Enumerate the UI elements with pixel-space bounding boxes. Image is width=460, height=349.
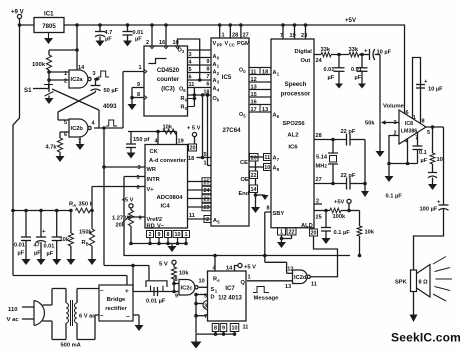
svg-text:11: 11 (264, 155, 270, 161)
svg-text:10: 10 (175, 232, 181, 238)
svg-text:9: 9 (158, 232, 161, 238)
svg-text:µF: µF (421, 158, 428, 164)
svg-text:20: 20 (311, 231, 317, 237)
svg-text:9: 9 (137, 82, 140, 88)
svg-text:23: 23 (204, 205, 210, 211)
svg-text:8: 8 (175, 277, 178, 283)
svg-text:µF: µF (47, 251, 54, 257)
svg-text:13: 13 (285, 284, 291, 290)
svg-text:24: 24 (316, 58, 323, 64)
svg-text:+5 V: +5 V (122, 198, 134, 204)
svg-text:µF: µF (135, 37, 142, 43)
svg-text:33k: 33k (349, 47, 359, 53)
svg-text:+: + (364, 49, 368, 55)
svg-text:22: 22 (289, 230, 295, 236)
svg-text:V+: V+ (147, 187, 155, 193)
svg-text:4093: 4093 (103, 103, 117, 110)
svg-text:28: 28 (316, 133, 322, 139)
svg-text:10: 10 (199, 279, 205, 285)
svg-text:IC4: IC4 (161, 204, 171, 210)
svg-text:S1: S1 (24, 87, 32, 94)
svg-text:−: − (126, 314, 130, 321)
svg-text:IC2d: IC2d (294, 275, 307, 281)
svg-text:8: 8 (267, 206, 270, 212)
svg-text:6 V ac: 6 V ac (79, 314, 95, 320)
svg-text:25: 25 (316, 215, 322, 221)
svg-text:0.01 µF: 0.01 µF (146, 299, 166, 305)
svg-text:25: 25 (204, 180, 210, 186)
svg-text:IC8: IC8 (405, 121, 413, 127)
svg-text:1: 1 (139, 65, 142, 71)
svg-text:5.14: 5.14 (316, 155, 328, 161)
svg-text:100 µF: 100 µF (420, 207, 438, 213)
svg-text:22 pF: 22 pF (341, 173, 356, 179)
svg-text:3: 3 (189, 52, 192, 58)
svg-text:8: 8 (137, 92, 140, 98)
svg-text:8: 8 (167, 232, 170, 238)
svg-text:11: 11 (189, 213, 195, 219)
svg-text:+: + (125, 288, 129, 295)
svg-text:12: 12 (251, 77, 257, 83)
svg-text:1: 1 (248, 275, 251, 281)
svg-text:µF: µF (105, 37, 112, 43)
svg-text:Speech: Speech (285, 81, 307, 88)
svg-text:IC2b: IC2b (71, 126, 84, 132)
svg-text:6: 6 (64, 132, 67, 138)
svg-text:WR: WR (147, 167, 156, 173)
svg-text:6: 6 (206, 82, 209, 88)
svg-text:OE: OE (241, 177, 249, 183)
svg-text:0.01: 0.01 (14, 243, 25, 249)
svg-text:+: + (424, 79, 428, 85)
svg-text:5 V: 5 V (159, 262, 168, 268)
svg-text:2: 2 (206, 217, 209, 223)
svg-text:PP: PP (217, 43, 223, 48)
svg-text:20: 20 (190, 146, 196, 152)
svg-text:LM386: LM386 (401, 129, 418, 135)
svg-text:Message: Message (254, 296, 280, 302)
svg-text:Q: Q (241, 280, 246, 286)
svg-text:0.01: 0.01 (351, 67, 362, 73)
svg-text:µF: µF (34, 251, 41, 257)
svg-text:3: 3 (204, 304, 207, 310)
svg-text:Digital: Digital (295, 49, 313, 55)
svg-text:INTR: INTR (147, 177, 160, 183)
svg-text:IC6: IC6 (288, 145, 298, 151)
svg-text:ADC0804: ADC0804 (157, 195, 184, 201)
svg-text:1: 1 (222, 33, 225, 39)
svg-text:0.01: 0.01 (44, 244, 55, 250)
svg-text:D: D (211, 295, 215, 301)
svg-text:350 k: 350 k (79, 202, 94, 208)
svg-text:10k: 10k (179, 271, 189, 277)
svg-text:6: 6 (189, 75, 192, 81)
svg-text:IC2a: IC2a (71, 77, 84, 83)
svg-text:Vref/2: Vref/2 (147, 217, 163, 223)
svg-text:100k: 100k (32, 62, 46, 68)
svg-text:27: 27 (243, 33, 249, 39)
svg-text:20: 20 (251, 155, 257, 161)
svg-text:0.01: 0.01 (133, 30, 144, 36)
svg-text:0.01: 0.01 (324, 67, 335, 73)
svg-text:11: 11 (311, 282, 317, 288)
svg-text:RD: RD (147, 224, 155, 230)
svg-text:10: 10 (437, 157, 443, 163)
svg-text:150 pf: 150 pf (133, 137, 150, 143)
svg-text:8: 8 (422, 119, 425, 125)
svg-text:13: 13 (251, 85, 257, 91)
svg-text:14: 14 (226, 266, 233, 272)
svg-text:9: 9 (222, 326, 225, 332)
svg-text:+5 V: +5 V (244, 265, 256, 271)
svg-text:+: + (42, 229, 46, 235)
svg-text:MHz: MHz (316, 164, 328, 170)
svg-text:5: 5 (427, 130, 430, 136)
svg-text:8: 8 (206, 67, 209, 73)
svg-text:11: 11 (243, 325, 249, 331)
svg-text:10: 10 (264, 165, 270, 171)
svg-text:22 pF: 22 pF (341, 129, 356, 135)
svg-text:110: 110 (8, 307, 18, 313)
svg-text:23: 23 (301, 33, 307, 39)
svg-text:4.7k: 4.7k (46, 145, 58, 151)
svg-text:AL2: AL2 (287, 133, 299, 139)
svg-text:A-d converter: A-d converter (149, 158, 187, 164)
svg-text:1: 1 (204, 161, 207, 167)
svg-text:2: 2 (64, 79, 67, 85)
svg-text:150k: 150k (79, 230, 92, 236)
svg-text:+5V: +5V (345, 17, 357, 24)
svg-text:1/2 4013: 1/2 4013 (218, 295, 242, 302)
svg-text:Out: Out (301, 58, 311, 64)
svg-text:28: 28 (232, 33, 238, 39)
svg-text:50k: 50k (365, 121, 375, 127)
svg-text:SeekIC.com: SeekIC.com (391, 331, 460, 345)
svg-text:5: 5 (189, 67, 192, 73)
svg-text:rectifier: rectifier (105, 306, 127, 312)
svg-text:(IC3): (IC3) (161, 86, 175, 93)
svg-text:19: 19 (178, 139, 184, 145)
svg-text:1: 1 (185, 232, 188, 238)
svg-text:A: A (73, 203, 76, 208)
svg-text:µF: µF (355, 75, 362, 81)
svg-text:counter: counter (157, 76, 180, 83)
svg-text:11: 11 (251, 70, 257, 76)
svg-text:Bridge: Bridge (107, 297, 126, 303)
svg-text:SPK: SPK (395, 280, 408, 286)
svg-text:12: 12 (287, 266, 293, 272)
svg-text:3: 3 (138, 165, 141, 171)
svg-text:7: 7 (206, 74, 209, 80)
svg-text:~: ~ (100, 314, 104, 320)
svg-text:9: 9 (175, 294, 178, 300)
svg-text:50 µF: 50 µF (104, 88, 119, 94)
svg-text:1.27 V: 1.27 V (112, 216, 129, 222)
svg-text:CD4520: CD4520 (157, 67, 180, 74)
svg-text:8: 8 (214, 326, 217, 332)
svg-text:1: 1 (64, 71, 67, 77)
svg-text:IC1: IC1 (44, 11, 54, 18)
svg-text:500 mA: 500 mA (61, 343, 81, 349)
svg-text:17: 17 (251, 107, 257, 113)
svg-text:2: 2 (149, 232, 152, 238)
svg-text:21: 21 (204, 197, 210, 203)
svg-text:0.1 µF: 0.1 µF (386, 194, 403, 200)
svg-text:22: 22 (251, 173, 257, 179)
svg-text:9: 9 (206, 59, 209, 65)
svg-text:0.1 µF: 0.1 µF (334, 230, 351, 236)
svg-text:27C64: 27C64 (223, 127, 242, 134)
svg-text:IC2c: IC2c (181, 285, 193, 291)
svg-text:47: 47 (34, 243, 40, 249)
svg-text:V−: V− (157, 224, 165, 230)
svg-text:SBY: SBY (273, 211, 285, 217)
svg-text:IC5: IC5 (222, 74, 232, 81)
svg-text:6: 6 (406, 110, 409, 116)
svg-text:10k: 10k (365, 230, 375, 236)
svg-text:27: 27 (316, 177, 322, 183)
svg-text:14: 14 (251, 187, 257, 193)
svg-text:V ac: V ac (7, 317, 20, 323)
svg-text:24: 24 (204, 188, 210, 194)
svg-text:10k: 10k (163, 125, 173, 131)
svg-text:33k: 33k (321, 47, 331, 53)
svg-text:3: 3 (394, 120, 397, 126)
svg-text:4.7: 4.7 (105, 30, 113, 36)
svg-text:18: 18 (188, 156, 194, 162)
svg-text:0.1: 0.1 (419, 150, 427, 156)
svg-text:8 Ω: 8 Ω (419, 280, 429, 286)
svg-text:+5V: +5V (334, 200, 344, 206)
svg-text:µF: µF (328, 75, 335, 81)
svg-text:100k: 100k (333, 214, 346, 220)
svg-text:5: 5 (64, 120, 67, 126)
svg-text:7805: 7805 (42, 23, 56, 30)
svg-text:10: 10 (232, 326, 238, 332)
svg-text:IC7: IC7 (225, 285, 235, 292)
svg-text:10 µF: 10 µF (428, 87, 443, 93)
svg-text:processor: processor (281, 90, 311, 97)
svg-text:7: 7 (204, 314, 207, 320)
svg-text:10: 10 (173, 40, 179, 46)
svg-text:14: 14 (78, 65, 85, 71)
svg-text:16: 16 (251, 100, 257, 106)
svg-text:+ 5 V: + 5 V (187, 126, 201, 132)
svg-text:PGM: PGM (237, 41, 250, 47)
svg-text:15: 15 (251, 92, 257, 98)
svg-text:~: ~ (100, 289, 104, 295)
svg-text:Volume: Volume (383, 104, 405, 110)
svg-text:1: 1 (413, 115, 416, 121)
svg-text:SPO256: SPO256 (282, 121, 305, 127)
svg-text:1: 1 (280, 230, 283, 236)
svg-text:2: 2 (146, 40, 149, 46)
svg-text:13: 13 (262, 107, 268, 113)
svg-text:11: 11 (189, 82, 195, 88)
svg-text:µF: µF (18, 251, 25, 257)
svg-text:10k: 10k (60, 237, 70, 243)
svg-text:10 µF: 10 µF (377, 50, 392, 56)
svg-text:CE: CE (240, 160, 248, 166)
svg-text:End: End (239, 191, 250, 197)
svg-text:+: + (437, 200, 441, 206)
svg-text:CC: CC (229, 43, 235, 48)
svg-text:18: 18 (262, 70, 268, 76)
svg-text:CK: CK (150, 149, 159, 155)
svg-text:16: 16 (159, 40, 165, 46)
svg-text:3: 3 (93, 71, 96, 77)
svg-text:B: B (86, 242, 89, 247)
svg-text:5: 5 (204, 152, 207, 158)
